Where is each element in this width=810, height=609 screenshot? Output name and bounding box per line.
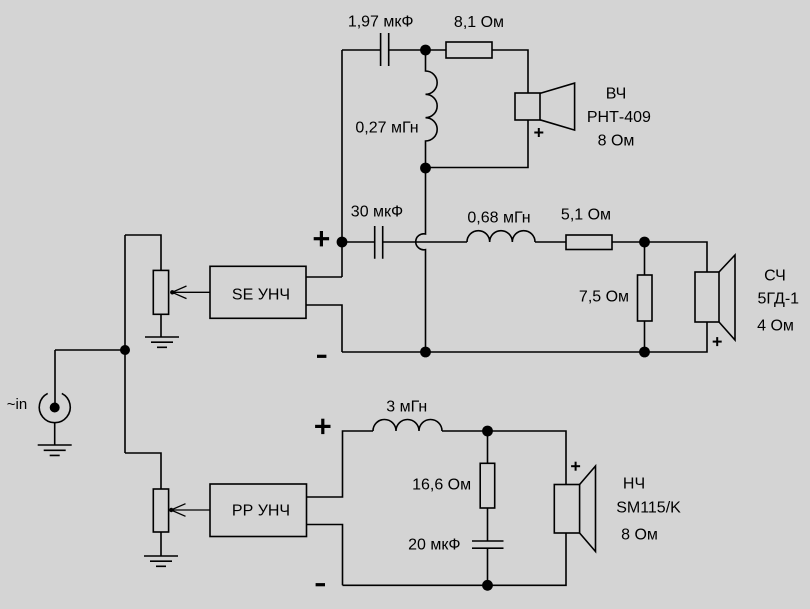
svg-text:5ГД-1: 5ГД-1 [758, 290, 800, 307]
svg-text:НЧ: НЧ [623, 476, 645, 493]
svg-text:СЧ: СЧ [764, 268, 786, 285]
svg-text:0,27 мГн: 0,27 мГн [355, 119, 418, 136]
svg-text:0,68 мГн: 0,68 мГн [467, 210, 530, 227]
svg-text:5,1 Ом: 5,1 Ом [561, 207, 611, 224]
svg-text:РНТ-409: РНТ-409 [587, 109, 651, 126]
svg-text:8,1 Ом: 8,1 Ом [454, 14, 504, 31]
svg-text:1,97 мкФ: 1,97 мкФ [348, 14, 414, 31]
svg-text:16,6 Ом: 16,6 Ом [412, 477, 471, 494]
svg-text:30 мкФ: 30 мкФ [351, 204, 403, 221]
svg-text:SM115/K: SM115/K [616, 500, 681, 517]
svg-text:4 Ом: 4 Ом [757, 317, 794, 334]
svg-text:7,5 Ом: 7,5 Ом [579, 289, 629, 306]
svg-text:8 Ом: 8 Ом [598, 133, 635, 150]
svg-text:РР УНЧ: РР УНЧ [232, 503, 290, 520]
svg-text:ВЧ: ВЧ [606, 86, 627, 103]
svg-text:20 мкФ: 20 мкФ [408, 537, 460, 554]
svg-text:SE УНЧ: SE УНЧ [232, 287, 290, 304]
svg-text:8 Ом: 8 Ом [621, 527, 658, 544]
svg-text:3 мГн: 3 мГн [386, 399, 427, 416]
svg-text:~in: ~in [7, 396, 27, 413]
